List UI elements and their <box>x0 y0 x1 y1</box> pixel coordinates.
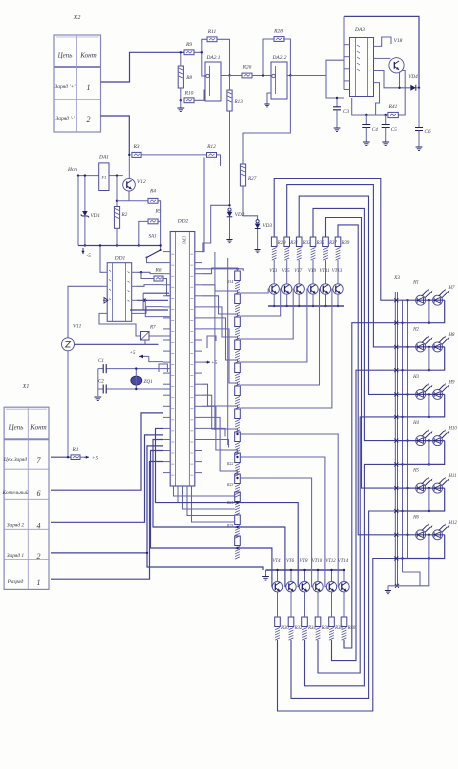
svg-text:Конт: Конт <box>29 424 46 432</box>
wire R10 to DA2.1 input 2 <box>194 90 205 100</box>
svg-text:H5: H5 <box>412 469 419 474</box>
wire top feed to DA3 <box>344 16 419 87</box>
capacitor C6 <box>418 88 420 128</box>
wire X2 pin2 down to R3 <box>101 116 130 155</box>
wire crystal bottom line <box>98 388 103 390</box>
ground X3 bottom <box>387 586 389 590</box>
X3 pin return row 3 <box>394 415 398 419</box>
svg-text:+5: +5 <box>211 360 218 366</box>
svg-text:R11: R11 <box>207 29 217 35</box>
wire LED mid bracket row 3 <box>428 394 430 417</box>
wire R29 to VT3 collector <box>273 260 275 284</box>
transistor VT11 <box>320 284 330 294</box>
wire R1 arrow +5 <box>80 456 84 458</box>
X2 header cell Конт <box>79 52 96 60</box>
resistor R4 <box>148 198 158 203</box>
wire R8 top <box>180 52 182 66</box>
svg-text:R2: R2 <box>121 212 128 218</box>
resistor R9 <box>184 50 194 55</box>
wire R38 to X3 return row <box>332 370 398 660</box>
wire R11 left <box>202 39 207 52</box>
wire X1 row4 to DD2 <box>51 435 163 522</box>
LED H6 <box>416 523 433 539</box>
resistor R39 <box>335 237 341 247</box>
svg-text:Котельный: Котельный <box>1 489 28 496</box>
LED H8 <box>433 336 450 352</box>
LED H2 <box>416 336 433 352</box>
svg-text:Заряд 1: Заряд 1 <box>7 552 25 559</box>
resistor R27 <box>240 164 245 186</box>
svg-text:R29: R29 <box>277 241 286 246</box>
wire DD1 pin to -5 bus <box>100 246 103 273</box>
wire loop left of DA3 <box>326 60 344 98</box>
wire X3 bottom pin <box>395 584 399 588</box>
svg-text:R22: R22 <box>226 462 233 466</box>
svg-text:VT3: VT3 <box>269 269 278 274</box>
svg-text:R26: R26 <box>242 65 252 71</box>
resistor R38 <box>329 617 335 627</box>
X1 header cell Цепь <box>8 424 24 432</box>
svg-text:DA1: DA1 <box>98 155 109 161</box>
wire loop R37 to LED row 5 <box>326 218 398 489</box>
wire LED return row 5 <box>398 488 445 511</box>
svg-text:6: 6 <box>37 489 41 498</box>
wire DD2 left mid stubs <box>163 368 170 370</box>
svg-text:VD2: VD2 <box>235 212 245 218</box>
LED H5 <box>416 477 433 493</box>
wire DA1 output to V12 <box>109 175 123 177</box>
svg-text:R23: R23 <box>226 483 233 487</box>
X3 pin feed row 5 <box>394 486 398 490</box>
X3 pin feed row 4 <box>394 439 398 443</box>
resistor R6 <box>140 271 142 273</box>
resistor R5 <box>148 219 158 224</box>
X3 pin return row 5 <box>394 509 398 513</box>
resistor R31 <box>284 237 290 247</box>
wire bus to VT14 <box>343 570 345 582</box>
wires DD2 right pins to resistor column <box>202 268 238 386</box>
DD2 pin tick marks <box>171 254 193 475</box>
wire row2 branch to emitter bus <box>147 553 263 570</box>
svg-text:VT6: VT6 <box>286 559 295 564</box>
X3 pin return row 2 <box>394 368 398 372</box>
wire VT8 to R34 <box>304 592 306 617</box>
wire bus to VT12 <box>331 570 333 582</box>
wire X1 row1 to DD2 <box>51 462 163 580</box>
svg-text:VT10: VT10 <box>312 559 323 564</box>
connector X2 table <box>54 35 101 132</box>
LED H9 <box>433 383 450 399</box>
svg-text:VT4: VT4 <box>273 559 282 564</box>
connector X3 line <box>394 292 396 586</box>
wire R4 R5 right junction <box>158 201 161 222</box>
wire V11 bottom down to R1 node <box>67 351 69 457</box>
wire R30 to X3 return row <box>278 559 398 712</box>
wire U loop <box>145 298 169 317</box>
wire VD3 to ground <box>257 229 259 249</box>
transistor VT7 <box>294 284 304 294</box>
wire LED feed row 3 <box>398 393 445 395</box>
resistor R7 box <box>141 332 150 341</box>
LED H12 <box>433 523 450 539</box>
wire VT10 to R36 <box>317 592 319 617</box>
svg-text:Цех.Заряд: Цех.Заряд <box>3 456 27 463</box>
wire DD1 to DD2 d <box>137 307 163 314</box>
svg-text:VT13: VT13 <box>332 269 343 274</box>
transistor VT9 <box>308 284 318 294</box>
svg-text:H6: H6 <box>412 515 419 520</box>
wire DD2 pin to column top <box>195 269 243 271</box>
wire DD1 to DD2 b <box>137 285 163 287</box>
svg-text:H2: H2 <box>412 327 419 332</box>
svg-text:DA3: DA3 <box>354 27 365 33</box>
svg-text:X3: X3 <box>393 275 400 281</box>
ground below R8 <box>180 100 182 108</box>
DD2 right pins <box>195 252 202 473</box>
bus right of X3 a <box>402 300 404 572</box>
diode VD3 <box>256 220 259 223</box>
transistor VT4 <box>272 582 282 592</box>
resistor R29 <box>271 237 277 247</box>
wires even transistor base feeds <box>151 428 339 586</box>
transistor VT3 <box>269 284 279 294</box>
resistor R26 <box>242 73 252 78</box>
optocoupler V11 <box>62 338 75 351</box>
svg-text:R4: R4 <box>149 188 156 195</box>
wire LED feed row 6 <box>398 534 445 536</box>
svg-text:R27: R27 <box>247 176 257 182</box>
LED H7 <box>433 289 450 305</box>
ground below C3 <box>336 110 338 128</box>
svg-text:C5: C5 <box>391 127 397 133</box>
wire bus to VT10 <box>317 570 319 582</box>
wire loop R31 to LED row 2 <box>287 185 397 347</box>
wires DD2 bottom to lower column <box>174 486 235 522</box>
resistor R10 <box>184 98 194 103</box>
wire LED return row 3 <box>398 394 445 417</box>
chip DA3 <box>350 38 374 97</box>
X1 row Заряд 2 pin 4 <box>7 521 25 528</box>
wire V18 emitter to R41 <box>398 71 405 116</box>
svg-text:Разряд: Разряд <box>7 578 24 585</box>
diode VD4 <box>410 85 416 91</box>
resistor R2 <box>114 207 119 229</box>
svg-text:R8: R8 <box>185 75 192 81</box>
svg-text:VD3: VD3 <box>263 223 273 229</box>
wire R28 right to output <box>283 39 290 76</box>
wire V11 right side <box>75 343 159 345</box>
svg-text:X1: X1 <box>22 384 30 390</box>
wire X1 row6 to DD2 <box>51 413 163 490</box>
svg-text:Цепь: Цепь <box>8 424 24 432</box>
svg-text:H9: H9 <box>448 380 455 385</box>
X1 header cell Конт <box>29 424 46 432</box>
wire emitter node line <box>117 200 148 202</box>
wire VT11 emitter to bus <box>325 294 327 306</box>
X3 pin feed row 6 <box>394 533 398 537</box>
svg-text:V11: V11 <box>73 324 82 330</box>
wire DA1 node down through R2 <box>116 176 118 207</box>
ground below C6 <box>418 131 420 148</box>
chip DD1 <box>107 263 132 322</box>
svg-text:VD1: VD1 <box>91 213 101 219</box>
svg-text:+5: +5 <box>92 456 99 462</box>
svg-text:VT14: VT14 <box>338 559 349 564</box>
svg-text:Исп: Исп <box>67 167 77 173</box>
resistor column top stub <box>237 269 239 271</box>
wire R31 to VT5 collector <box>286 260 288 284</box>
emitter bus odd transistors <box>268 305 344 307</box>
capacitor C5 <box>385 115 387 125</box>
svg-text:R13: R13 <box>234 99 244 105</box>
resistor R35 <box>310 237 316 247</box>
wire DA3 to V18 base <box>378 57 391 59</box>
wire R5 left to -5 bus <box>139 221 148 245</box>
wire X2 pin1 to R9 <box>101 52 185 82</box>
transistor VT10 <box>313 582 323 592</box>
wire VT7 emitter to bus <box>298 294 300 306</box>
ground even bus <box>265 570 267 576</box>
transistor VT13 <box>333 284 343 294</box>
resistor R33 <box>296 237 302 247</box>
wire crystal vertical <box>135 369 137 389</box>
bus right of DD2 b <box>227 258 229 445</box>
wire R12 right hook <box>217 155 221 166</box>
wire R33 to VT7 collector <box>298 260 300 284</box>
wire R8 bottom to R10 line <box>180 88 182 100</box>
crystal ZQ1 <box>131 376 142 385</box>
wire DA3 pin down to R41 line <box>376 83 380 115</box>
resistor column R14-R25 <box>226 271 240 559</box>
wire V18 collector to VD4 line <box>399 72 401 88</box>
wire output node to R13 <box>229 76 231 91</box>
DA3 right pins <box>374 46 378 82</box>
resistor R36 <box>315 617 321 627</box>
svg-text:VT11: VT11 <box>319 269 329 274</box>
wire SA1 to DD2 pin <box>147 258 164 263</box>
wire LED mid bracket row 2 <box>428 347 430 370</box>
wire R41 to C5 C4 nodes <box>352 98 388 115</box>
wire LED feed row 1 <box>398 299 445 301</box>
wire DA3 left feed vertical <box>343 16 345 89</box>
wire LED mid bracket row 1 <box>428 300 430 323</box>
wire VT9 emitter to bus <box>312 294 314 306</box>
wire loop R35 to LED row 4 <box>313 208 397 440</box>
svg-text:X2: X2 <box>73 15 81 21</box>
svg-text:C6: C6 <box>425 129 431 135</box>
wire bus to VT4 <box>277 570 279 582</box>
X3 pin feed row 2 <box>394 345 398 349</box>
svg-text:R41: R41 <box>388 103 398 110</box>
wire R7 right to DD2 <box>149 335 170 337</box>
DA3 left pins <box>344 45 350 90</box>
wire bus to VT6 <box>290 570 292 582</box>
connector X1 table <box>4 407 49 589</box>
X1 row Заряд 1 pin 2 <box>7 552 25 559</box>
wire loop R33 to LED row 3 <box>299 196 397 394</box>
resistor R13 <box>227 90 232 111</box>
resistor R1 <box>71 455 80 460</box>
svg-text:R7: R7 <box>149 326 156 331</box>
wire VT4 to R30 <box>277 592 279 617</box>
svg-text:R35: R35 <box>316 241 325 246</box>
svg-text:1: 1 <box>87 83 91 92</box>
wire LED return row 4 <box>398 441 445 465</box>
svg-text:H11: H11 <box>448 474 457 479</box>
transistor V12 <box>123 178 136 191</box>
wire LED mid bracket row 5 <box>428 488 430 511</box>
svg-text:2: 2 <box>87 115 91 124</box>
LED H4 <box>416 429 433 445</box>
svg-text:4: 4 <box>37 521 41 530</box>
capacitor C1 <box>103 364 106 373</box>
svg-text:H12: H12 <box>448 521 458 526</box>
X2 row1 Заряд + pin 1 <box>55 83 77 90</box>
X1 row Разряд pin 1 <box>7 578 24 585</box>
wire DA2.2 output to DA3 cluster <box>290 75 326 77</box>
wire dark mid <box>130 309 168 311</box>
chip DD2 <box>170 232 195 487</box>
X3 pin feed row 3 <box>394 392 398 396</box>
wire R11 right to output <box>217 39 230 75</box>
bus right of DD2 a <box>214 252 216 430</box>
wire LED feed row 5 <box>398 487 445 489</box>
wire bus to VT8 <box>304 570 306 582</box>
wire R27 to VD3 <box>243 186 258 220</box>
wire R28 feedback loop <box>263 39 274 76</box>
svg-text:R28: R28 <box>273 29 283 35</box>
transistor VT12 <box>326 582 336 592</box>
svg-text:V18: V18 <box>394 38 403 44</box>
DD1 right pins <box>132 272 137 313</box>
resistor R3 <box>132 152 141 157</box>
capacitor C2 <box>103 385 106 394</box>
svg-text:VT9: VT9 <box>308 269 317 274</box>
svg-text:DD1: DD1 <box>114 256 126 262</box>
svg-text:C1: C1 <box>98 358 104 364</box>
wire R26 to DA2.2 <box>252 75 271 77</box>
resistor R34 <box>302 617 308 627</box>
bus junction dots <box>401 299 408 560</box>
wire VT13 emitter to bus <box>337 294 339 306</box>
LED H1 <box>416 289 433 305</box>
wire loop R39 to LED row 6 <box>338 225 397 535</box>
svg-text:H3: H3 <box>412 375 419 380</box>
wire V12 base up to R3 node <box>128 155 130 179</box>
transistor VT5 <box>282 284 292 294</box>
X3 pin return row 4 <box>394 462 398 466</box>
X1 row Цех.Заряд pin 7 <box>3 456 27 463</box>
diode VD2 <box>228 208 231 211</box>
svg-text:SA1: SA1 <box>148 235 156 240</box>
wire loop below DD1 <box>143 292 169 294</box>
wire hook right of DD2 <box>207 336 216 348</box>
svg-text:H10: H10 <box>448 427 458 432</box>
wire X1 pin7 to R1 <box>51 456 71 458</box>
transistor VT8 <box>299 582 309 592</box>
wire VT12 to R38 <box>331 592 333 617</box>
wire DD1 to DD2 a <box>137 272 163 273</box>
svg-text:Конт: Конт <box>79 52 96 60</box>
svg-text:VT7: VT7 <box>294 269 303 274</box>
svg-text:VT5: VT5 <box>282 269 291 274</box>
resistor R41 <box>388 112 398 117</box>
svg-text:R1: R1 <box>71 447 78 453</box>
svg-text:ZQ1: ZQ1 <box>144 379 154 385</box>
wire input to DA1 <box>78 175 99 177</box>
X3 pin feed row 1 <box>394 298 398 302</box>
svg-text:CPU: CPU <box>181 236 186 245</box>
svg-text:H8: H8 <box>448 333 455 338</box>
X2 row2 Заряд - pin 2 <box>55 115 75 122</box>
resistor R8 <box>178 66 183 88</box>
bus right of X3 b <box>407 300 409 558</box>
svg-text:1: 1 <box>37 578 41 587</box>
wire crystal top line <box>98 368 103 370</box>
X1 row Котельный pin 6 <box>1 489 28 496</box>
capacitor C3 <box>336 98 338 107</box>
svg-text:V12: V12 <box>137 179 146 185</box>
wires resistor column to odd transistor bases <box>240 289 332 408</box>
wire R34 to X3 return row <box>305 464 398 685</box>
wire DD1 to V11 <box>68 286 103 338</box>
wire DD1 to DD2 c <box>137 299 168 301</box>
connector X3 label <box>393 275 400 281</box>
wire corner to DD2 pin <box>202 205 230 251</box>
op-amp DA2.1 <box>205 62 221 101</box>
connector X1 label <box>22 384 30 390</box>
svg-text:Цепь: Цепь <box>57 52 73 60</box>
svg-text:У1: У1 <box>101 175 106 180</box>
svg-text:R37: R37 <box>328 241 337 246</box>
label Исп input <box>67 167 77 173</box>
ground hook below DA2.2 <box>267 93 271 104</box>
op-amp DA2.2 <box>271 62 287 99</box>
X2 header cell Цепь <box>57 52 73 60</box>
svg-text:DD2: DD2 <box>177 219 189 225</box>
wire R3 to R12 <box>141 154 206 156</box>
wire VD2 to ground <box>229 217 231 239</box>
wire LED feed row 4 <box>398 440 445 442</box>
svg-text:DA2.2: DA2.2 <box>272 55 287 61</box>
regulator DA1 <box>99 163 109 191</box>
wire R13 down to corner <box>229 111 231 205</box>
wire R7 bottom corner to V11 line <box>144 340 146 344</box>
wire VD4 to output node <box>417 87 420 89</box>
wire DA2.1 output to R26 <box>221 75 242 77</box>
transistor VT6 <box>286 582 296 592</box>
resistor R28 feedback <box>274 37 284 42</box>
svg-text:-5: -5 <box>87 253 92 259</box>
wire VT3 emitter to bus <box>273 294 275 306</box>
wire bus bottom hook <box>403 572 421 586</box>
resistor R40 <box>341 617 347 627</box>
wire R36 to X3 return row <box>318 417 397 673</box>
wire LED mid bracket row 6 <box>428 535 430 559</box>
wire hook right of crystal <box>159 364 167 372</box>
connector X2 label <box>73 15 81 21</box>
wire loop R29 to LED row 1 <box>274 179 397 301</box>
label -5 arrow <box>81 248 84 254</box>
DD2 left pins <box>163 252 170 473</box>
capacitor C4 <box>365 115 367 125</box>
svg-text:R6: R6 <box>154 268 161 274</box>
zener VD1 <box>84 176 86 211</box>
+5 arrow right of DD2 <box>202 361 205 363</box>
svg-text:C4: C4 <box>372 126 378 133</box>
wire LED return row 1 <box>398 300 445 323</box>
svg-text:R12: R12 <box>206 144 216 150</box>
